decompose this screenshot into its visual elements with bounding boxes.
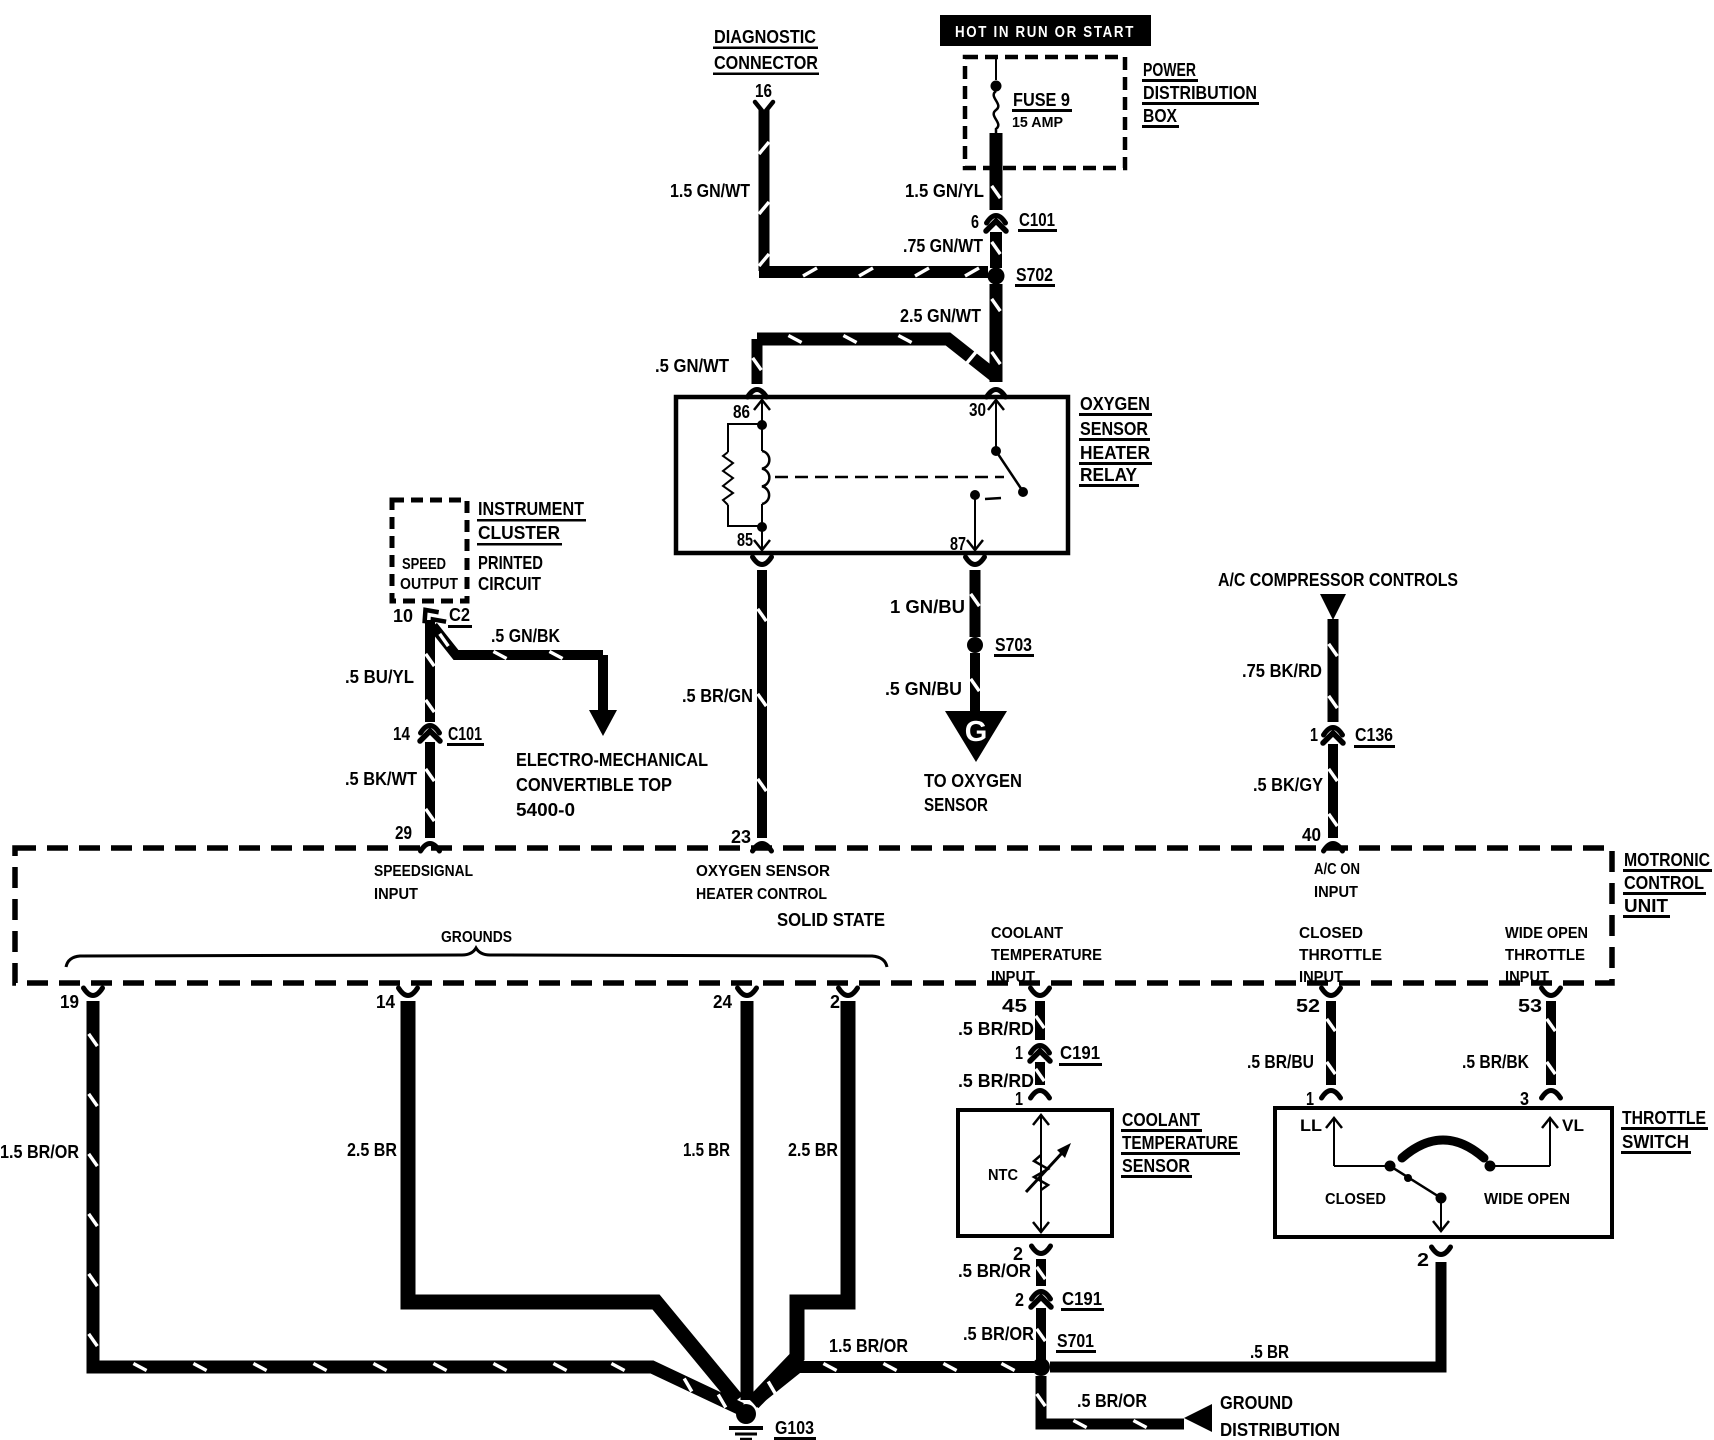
svg-text:29: 29 bbox=[395, 823, 412, 843]
svg-text:COOLANT: COOLANT bbox=[1122, 1110, 1200, 1130]
coolant temperature sensor NTC element bbox=[988, 1115, 1071, 1232]
svg-text:1.5 BR/OR: 1.5 BR/OR bbox=[0, 1142, 79, 1162]
wire .5 GN/WT to relay pin 86 bbox=[655, 339, 761, 384]
svg-text:.5 BR/OR: .5 BR/OR bbox=[958, 1261, 1031, 1281]
relay pin 85 connector bbox=[753, 557, 772, 565]
svg-text:GROUNDS: GROUNDS bbox=[441, 929, 512, 946]
diagnostic connector label bbox=[713, 27, 819, 75]
Motronic pin 53 bbox=[1518, 988, 1561, 1016]
svg-text:BOX: BOX bbox=[1143, 106, 1177, 126]
wire .5 BR/BK pin 53 to throttle pin 3 bbox=[1462, 1001, 1555, 1085]
svg-text:.5 BR/OR: .5 BR/OR bbox=[1077, 1391, 1147, 1411]
svg-text:CLUSTER: CLUSTER bbox=[478, 523, 560, 543]
svg-text:ELECTRO-MECHANICAL: ELECTRO-MECHANICAL bbox=[516, 750, 708, 770]
wire .5 BR S701 to throttle switch pin 2 bbox=[1050, 1262, 1441, 1367]
relay resistor bbox=[723, 424, 762, 526]
Motronic pin 2 bbox=[830, 988, 858, 1012]
coolant sensor pin 2 bbox=[1013, 1244, 1051, 1264]
svg-text:INPUT: INPUT bbox=[991, 969, 1035, 986]
svg-text:.75 BK/RD: .75 BK/RD bbox=[1242, 661, 1322, 681]
svg-text:WIDE OPEN: WIDE OPEN bbox=[1505, 925, 1588, 942]
svg-text:OUTPUT: OUTPUT bbox=[400, 576, 458, 593]
svg-text:S702: S702 bbox=[1016, 265, 1053, 285]
svg-text:CONNECTOR: CONNECTOR bbox=[714, 53, 818, 73]
svg-text:85: 85 bbox=[737, 530, 753, 550]
svg-text:VL: VL bbox=[1562, 1116, 1584, 1135]
connector C191 pin 1 bbox=[1015, 1043, 1102, 1066]
svg-text:G103: G103 bbox=[775, 1418, 814, 1438]
coolant temperature input label bbox=[991, 925, 1102, 986]
svg-text:2.5 BR: 2.5 BR bbox=[347, 1140, 397, 1160]
ground distribution off-page arrow bbox=[1184, 1393, 1340, 1440]
svg-text:TEMPERATURE: TEMPERATURE bbox=[991, 947, 1102, 964]
Motronic pin 19 bbox=[60, 988, 103, 1012]
svg-text:SOLID STATE: SOLID STATE bbox=[777, 910, 885, 930]
splice S701 bbox=[1032, 1331, 1096, 1376]
svg-text:COOLANT: COOLANT bbox=[991, 925, 1063, 942]
svg-text:1.5 BR: 1.5 BR bbox=[683, 1140, 730, 1160]
svg-text:86: 86 bbox=[733, 402, 750, 422]
relay pin 87 bbox=[950, 495, 983, 554]
wire .5 BU/YL C2 to C101 bbox=[345, 620, 434, 722]
svg-text:WIDE OPEN: WIDE OPEN bbox=[1484, 1191, 1570, 1208]
relay actuation dashed line bbox=[775, 476, 1004, 479]
svg-text:INPUT: INPUT bbox=[1314, 884, 1358, 901]
svg-text:87: 87 bbox=[950, 534, 966, 554]
throttle switch pin 1 bbox=[1306, 1089, 1341, 1109]
svg-text:10: 10 bbox=[393, 606, 413, 626]
svg-text:23: 23 bbox=[731, 827, 751, 847]
svg-text:C101: C101 bbox=[1019, 210, 1055, 230]
relay switch bbox=[970, 446, 1028, 500]
power distribution box (dashed) bbox=[965, 57, 1125, 168]
ground G103 bbox=[729, 1404, 816, 1440]
svg-text:THROTTLE: THROTTLE bbox=[1299, 947, 1382, 964]
closed throttle input label bbox=[1299, 925, 1382, 986]
connector C191 pin 2 bbox=[1015, 1289, 1104, 1311]
svg-text:45: 45 bbox=[1002, 996, 1027, 1016]
svg-text:.5 BR/GN: .5 BR/GN bbox=[682, 686, 753, 706]
connector C101 pin 14 bbox=[393, 724, 484, 746]
svg-text:MOTRONIC: MOTRONIC bbox=[1624, 850, 1710, 870]
svg-text:THROTTLE: THROTTLE bbox=[1505, 947, 1585, 964]
svg-text:.5 GN/WT: .5 GN/WT bbox=[655, 356, 729, 376]
wire .75 BK/RD bbox=[1242, 619, 1337, 722]
solid state label bbox=[777, 910, 885, 930]
svg-text:53: 53 bbox=[1518, 996, 1542, 1016]
svg-text:DIAGNOSTIC: DIAGNOSTIC bbox=[714, 27, 816, 47]
svg-text:CONVERTIBLE TOP: CONVERTIBLE TOP bbox=[516, 775, 672, 795]
wire .5 BR/RD C191 to sensor pin 1 bbox=[958, 1062, 1044, 1091]
grounds brace bbox=[66, 929, 887, 967]
diagnostic connector pin 16 bbox=[755, 81, 773, 112]
svg-text:2.5 GN/WT: 2.5 GN/WT bbox=[900, 306, 981, 326]
coolant temperature sensor label bbox=[1121, 1110, 1240, 1178]
svg-text:A/C COMPRESSOR CONTROLS: A/C COMPRESSOR CONTROLS bbox=[1218, 570, 1458, 590]
throttle switch pin 3 bbox=[1520, 1089, 1561, 1109]
svg-text:.5 BR/BU: .5 BR/BU bbox=[1247, 1052, 1314, 1072]
wire .5 GN/BK branch to convertible top bbox=[433, 626, 617, 736]
relay pin 30 connector bbox=[987, 390, 1006, 398]
wire 1.5 BR/OR G103 to S701 bbox=[753, 1336, 1034, 1403]
svg-text:SPEED: SPEED bbox=[402, 556, 446, 573]
svg-text:19: 19 bbox=[60, 992, 79, 1012]
wire 2.5 BR pin 2 to G103 bbox=[753, 1001, 848, 1403]
svg-text:SENSOR: SENSOR bbox=[924, 795, 988, 815]
power feed banner HOT IN RUN OR START bbox=[940, 15, 1151, 46]
svg-text:15 AMP: 15 AMP bbox=[1012, 114, 1063, 131]
A/C on input label bbox=[1314, 861, 1360, 901]
throttle LL contact bbox=[1300, 1116, 1385, 1166]
svg-text:INSTRUMENT: INSTRUMENT bbox=[478, 499, 584, 519]
Motronic pin 24 bbox=[713, 988, 757, 1012]
svg-text:UNIT: UNIT bbox=[1624, 896, 1668, 916]
oxygen sensor heater relay label bbox=[1079, 394, 1152, 487]
wide open throttle input label bbox=[1505, 925, 1588, 986]
svg-text:DISTRIBUTION: DISTRIBUTION bbox=[1220, 1420, 1340, 1440]
svg-text:POWER: POWER bbox=[1143, 60, 1196, 80]
wire .5 GN/BU S703 to ground arrow bbox=[885, 653, 979, 713]
svg-text:LL: LL bbox=[1300, 1116, 1322, 1135]
svg-text:G: G bbox=[965, 716, 988, 748]
electro-mechanical convertible top label bbox=[516, 750, 708, 820]
svg-text:1: 1 bbox=[1015, 1043, 1023, 1063]
relay pin 87 connector bbox=[966, 557, 985, 565]
connector C2 pin 10 bbox=[393, 604, 472, 632]
svg-text:.5 GN/BU: .5 GN/BU bbox=[885, 679, 962, 699]
relay pin 86 bbox=[733, 400, 770, 425]
svg-text:24: 24 bbox=[713, 992, 732, 1012]
relay pin 86 connector bbox=[748, 390, 767, 398]
coolant sensor pin 1 bbox=[1015, 1089, 1050, 1109]
wire 2.5 GN/WT S702 to relay bbox=[757, 284, 1000, 382]
wire .5 BR/OR C191 to S701 bbox=[963, 1308, 1045, 1360]
wire .5 BK/WT C101 to Motronic 29 bbox=[345, 742, 434, 838]
svg-text:INPUT: INPUT bbox=[1505, 969, 1549, 986]
splice S702 bbox=[988, 265, 1056, 287]
relay pin 85 bbox=[737, 527, 770, 550]
svg-text:.5 BK/GY: .5 BK/GY bbox=[1253, 775, 1323, 795]
instrument cluster label bbox=[477, 499, 586, 594]
relay coil bbox=[757, 420, 769, 532]
svg-text:HEATER CONTROL: HEATER CONTROL bbox=[696, 886, 827, 903]
throttle wiper arc bbox=[1402, 1140, 1484, 1158]
wire .75 GN/WT C101 to S702 bbox=[903, 232, 1000, 268]
A/C compressor controls source arrow bbox=[1218, 570, 1458, 620]
svg-text:OXYGEN SENSOR: OXYGEN SENSOR bbox=[696, 863, 830, 880]
svg-text:5400-0: 5400-0 bbox=[516, 800, 575, 820]
svg-text:OXYGEN: OXYGEN bbox=[1080, 394, 1150, 414]
oxygen sensor heater relay box bbox=[676, 397, 1068, 553]
svg-text:CLOSED: CLOSED bbox=[1325, 1191, 1386, 1208]
svg-text:INPUT: INPUT bbox=[1299, 969, 1343, 986]
Motronic pin 29 connector bbox=[395, 823, 440, 851]
Motronic pin 52 bbox=[1296, 988, 1341, 1016]
throttle switch label bbox=[1621, 1108, 1708, 1154]
svg-text:.5 BR/RD: .5 BR/RD bbox=[958, 1019, 1034, 1039]
Motronic pin 14 bbox=[376, 988, 418, 1012]
speedsignal input label bbox=[374, 863, 473, 903]
svg-text:C136: C136 bbox=[1355, 725, 1393, 745]
fuse F9 15 AMP bbox=[991, 59, 1073, 135]
relay pin 30 bbox=[969, 400, 1004, 451]
svg-text:FUSE 9: FUSE 9 bbox=[1013, 90, 1070, 110]
svg-text:14: 14 bbox=[393, 724, 410, 744]
svg-text:C191: C191 bbox=[1060, 1043, 1100, 1063]
svg-text:S701: S701 bbox=[1057, 1331, 1094, 1351]
svg-text:S703: S703 bbox=[995, 635, 1032, 655]
svg-text:TEMPERATURE: TEMPERATURE bbox=[1122, 1133, 1238, 1153]
wire .5 BR/BU pin 52 to throttle pin 1 bbox=[1247, 1001, 1335, 1085]
svg-text:SENSOR: SENSOR bbox=[1080, 419, 1148, 439]
Motronic control unit label bbox=[1623, 850, 1712, 918]
Motronic pin 45 bbox=[1002, 988, 1050, 1016]
wire .5 BR/GN relay 85 to Motronic 23 bbox=[682, 570, 766, 838]
svg-text:.5 BR/BK: .5 BR/BK bbox=[1462, 1052, 1529, 1072]
throttle switch arm bbox=[1325, 1161, 1570, 1232]
svg-text:1: 1 bbox=[1310, 725, 1318, 745]
wire 1.5 BR/OR pin 19 to G103 bbox=[0, 1001, 741, 1409]
wire .5 BR/OR S701 to ground distribution bbox=[1037, 1376, 1184, 1428]
svg-text:.5 BR/OR: .5 BR/OR bbox=[963, 1324, 1034, 1344]
splice S703 bbox=[967, 635, 1034, 657]
svg-text:C191: C191 bbox=[1062, 1289, 1102, 1309]
wire 1.5 GN/WT diagnostic connector to S702 bbox=[670, 110, 988, 276]
wire .5 BK/GY bbox=[1253, 744, 1337, 838]
svg-text:CLOSED: CLOSED bbox=[1299, 925, 1363, 942]
svg-text:2: 2 bbox=[1015, 1290, 1024, 1310]
svg-text:INPUT: INPUT bbox=[374, 886, 418, 903]
svg-text:.5 BR: .5 BR bbox=[1250, 1342, 1289, 1362]
svg-text:PRINTED: PRINTED bbox=[478, 553, 543, 573]
wire .5 BR/OR sensor to C191 bbox=[958, 1259, 1045, 1286]
svg-text:.5 BK/WT: .5 BK/WT bbox=[345, 769, 417, 789]
wire 1.5 BR pin 24 to G103 bbox=[683, 1001, 747, 1400]
svg-text:HEATER: HEATER bbox=[1080, 443, 1150, 463]
svg-text:CONTROL: CONTROL bbox=[1624, 873, 1704, 893]
svg-text:52: 52 bbox=[1296, 996, 1320, 1016]
wire 1 GN/BU relay 87 to S703 bbox=[890, 570, 979, 637]
svg-text:30: 30 bbox=[969, 400, 986, 420]
connector C136 pin 1 bbox=[1310, 725, 1395, 748]
connector C101 pin 6 bbox=[971, 210, 1057, 232]
wire 2.5 BR pin 14 to G103 bbox=[347, 1001, 737, 1400]
svg-text:CIRCUIT: CIRCUIT bbox=[478, 574, 541, 594]
throttle switch box bbox=[1275, 1108, 1612, 1237]
svg-text:.5 BU/YL: .5 BU/YL bbox=[345, 667, 414, 687]
svg-text:THROTTLE: THROTTLE bbox=[1622, 1108, 1706, 1128]
svg-text:NTC: NTC bbox=[988, 1167, 1018, 1184]
svg-text:GROUND: GROUND bbox=[1220, 1393, 1293, 1413]
svg-text:40: 40 bbox=[1302, 825, 1321, 845]
svg-text:SWITCH: SWITCH bbox=[1622, 1132, 1689, 1152]
svg-text:1.5 GN/WT: 1.5 GN/WT bbox=[670, 181, 750, 201]
Motronic pin 40 connector bbox=[1302, 825, 1343, 851]
oxygen sensor heater control label bbox=[696, 863, 830, 903]
svg-text:HOT IN RUN OR START: HOT IN RUN OR START bbox=[955, 24, 1135, 41]
svg-text:SPEEDSIGNAL: SPEEDSIGNAL bbox=[374, 863, 473, 880]
coolant temperature sensor box bbox=[958, 1110, 1112, 1236]
svg-text:2: 2 bbox=[1417, 1250, 1429, 1270]
svg-text:2.5 BR: 2.5 BR bbox=[788, 1140, 838, 1160]
svg-text:16: 16 bbox=[755, 81, 772, 101]
wire 1.5 GN/YL fuse to C101 bbox=[905, 133, 1000, 210]
svg-text:RELAY: RELAY bbox=[1080, 465, 1137, 485]
instrument cluster box (dashed) bbox=[392, 500, 467, 601]
svg-text:C2: C2 bbox=[449, 605, 470, 625]
Motronic pin 23 connector bbox=[731, 827, 772, 851]
throttle switch pin 2 bbox=[1417, 1247, 1451, 1270]
svg-text:A/C ON: A/C ON bbox=[1314, 861, 1360, 878]
svg-text:.75 GN/WT: .75 GN/WT bbox=[903, 236, 983, 256]
svg-text:1.5 BR/OR: 1.5 BR/OR bbox=[829, 1336, 908, 1356]
svg-text:1.5 GN/YL: 1.5 GN/YL bbox=[905, 181, 984, 201]
svg-text:.5 BR/RD: .5 BR/RD bbox=[958, 1071, 1034, 1091]
ground arrow G to oxygen sensor bbox=[924, 711, 1022, 815]
svg-text:14: 14 bbox=[376, 992, 395, 1012]
svg-text:.5 GN/BK: .5 GN/BK bbox=[491, 626, 560, 646]
svg-text:1 GN/BU: 1 GN/BU bbox=[890, 597, 965, 617]
throttle VL contact bbox=[1495, 1116, 1584, 1166]
power distribution box label bbox=[1142, 60, 1259, 128]
svg-text:TO OXYGEN: TO OXYGEN bbox=[924, 771, 1022, 791]
svg-text:SENSOR: SENSOR bbox=[1122, 1156, 1190, 1176]
svg-text:DISTRIBUTION: DISTRIBUTION bbox=[1143, 83, 1257, 103]
Motronic control unit box (dashed) bbox=[15, 848, 1612, 983]
svg-text:2: 2 bbox=[830, 992, 840, 1012]
svg-text:C101: C101 bbox=[448, 724, 482, 744]
wire .5 BR/RD pin 45 to C191 bbox=[958, 1001, 1044, 1040]
svg-text:6: 6 bbox=[971, 212, 979, 232]
svg-text:1: 1 bbox=[1015, 1089, 1023, 1109]
